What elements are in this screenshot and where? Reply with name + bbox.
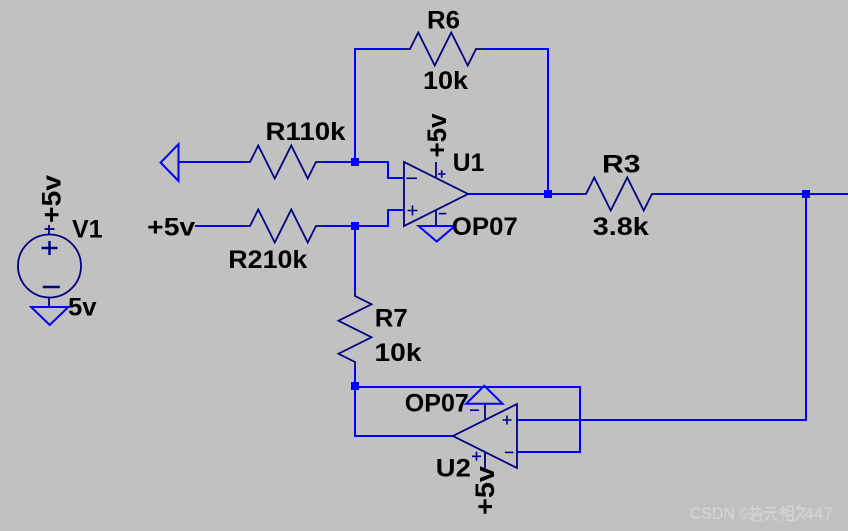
svg-text:R6: R6 <box>427 6 460 34</box>
svg-text:OP07: OP07 <box>452 213 518 241</box>
svg-text:5v: 5v <box>68 294 97 322</box>
svg-text:3.8k: 3.8k <box>593 213 649 241</box>
svg-text:10k: 10k <box>375 339 422 367</box>
svg-text:+5v: +5v <box>37 175 67 223</box>
svg-text:R3: R3 <box>602 151 641 179</box>
svg-text:U1: U1 <box>453 149 485 177</box>
svg-text:©: © <box>739 504 749 523</box>
svg-text:447: 447 <box>804 504 833 523</box>
svg-text:OP07: OP07 <box>405 390 469 418</box>
svg-text:+5v: +5v <box>422 114 452 158</box>
svg-text:R210k: R210k <box>228 246 307 274</box>
svg-text:CSDN: CSDN <box>690 504 735 523</box>
svg-text:U2: U2 <box>436 455 471 483</box>
svg-text:R7: R7 <box>375 305 408 333</box>
svg-text:10k: 10k <box>423 67 468 95</box>
svg-text:R110k: R110k <box>266 118 346 146</box>
svg-text:V1: V1 <box>72 215 103 243</box>
svg-text:+5v: +5v <box>147 213 195 241</box>
svg-text:+5v: +5v <box>470 466 500 515</box>
